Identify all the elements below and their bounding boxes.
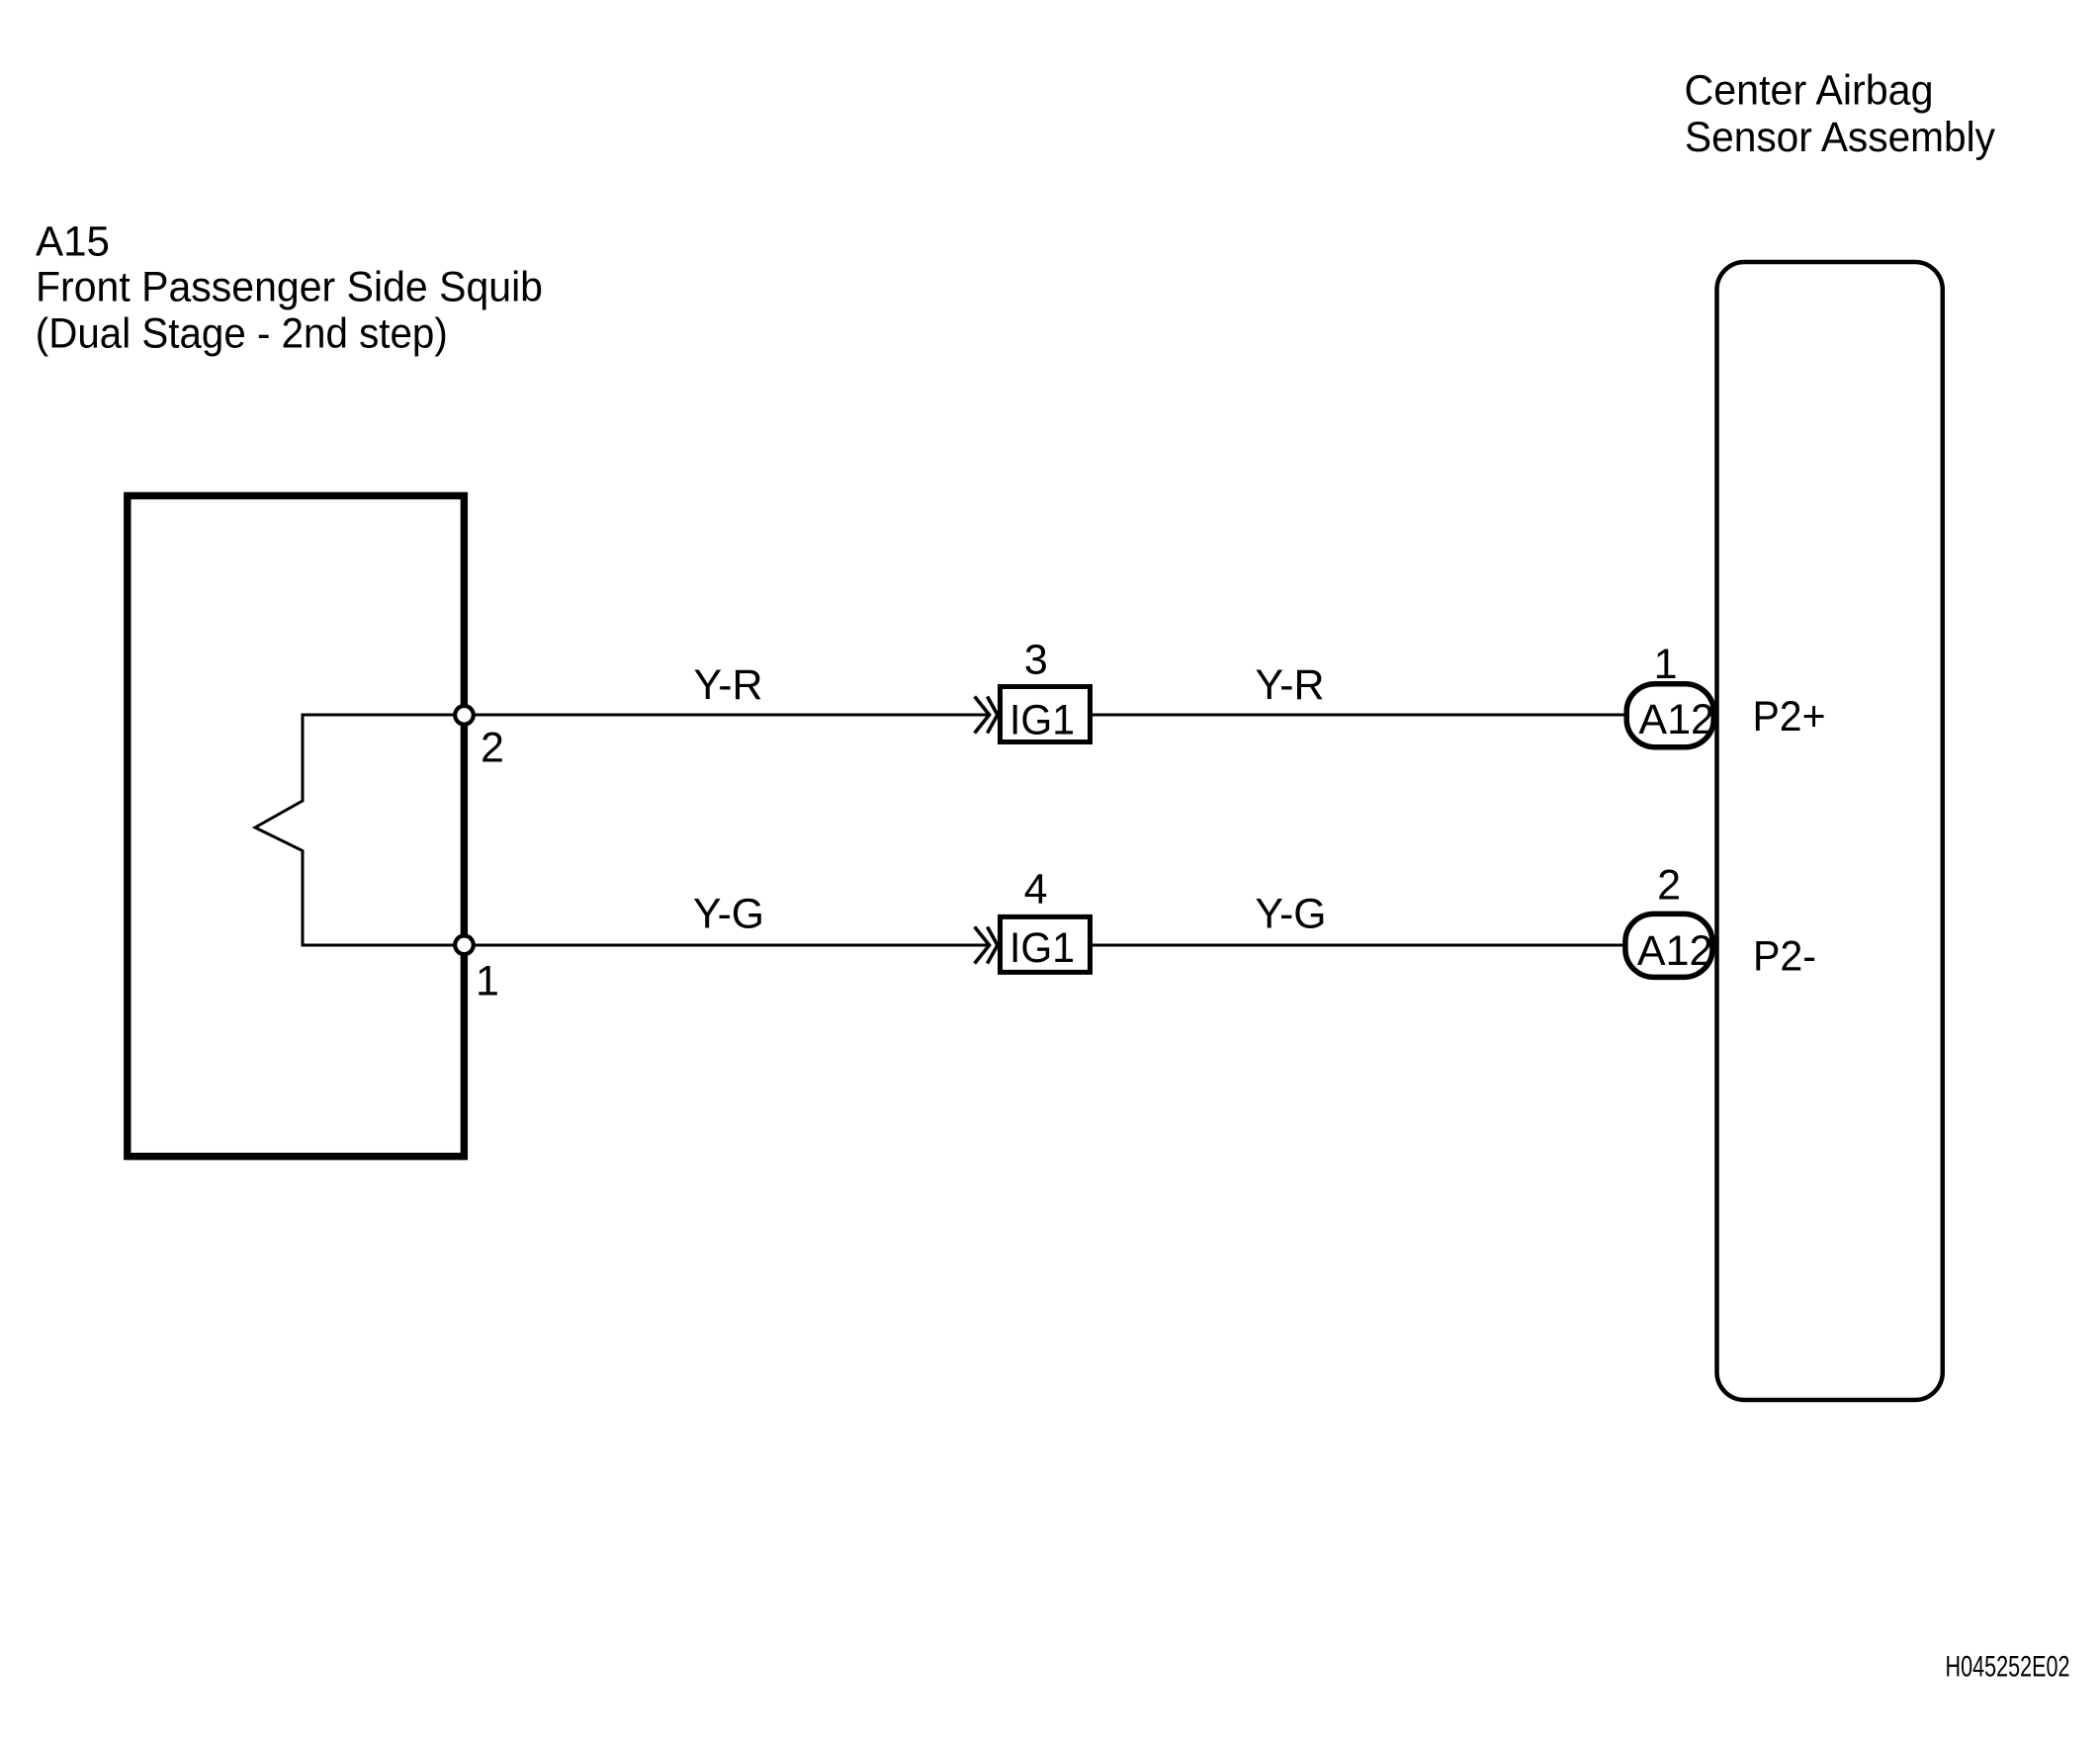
svg-text:IG1: IG1 (1009, 924, 1075, 972)
svg-text:Y-G: Y-G (1256, 891, 1327, 938)
wire Y-R from A15 pin 2 to junction IG1 (3) (473, 714, 989, 717)
svg-text:1: 1 (1654, 641, 1678, 688)
terminal pin 1 of A15 (455, 936, 474, 955)
inline connector chevrons (top wire) (975, 697, 990, 734)
svg-text:4: 4 (1024, 866, 1048, 914)
wire Y-R from junction IG1 (3) to A12 pin 1 (1093, 714, 1624, 717)
svg-text:2: 2 (1657, 862, 1681, 910)
connector oval A12 pin 2 (1625, 914, 1712, 977)
inline connector chevrons (bottom wire) (975, 927, 990, 964)
svg-text:Front Passenger Side Squib: Front Passenger Side Squib (36, 264, 543, 311)
svg-text:IG1: IG1 (1009, 697, 1075, 744)
Center Airbag Sensor Assembly body (rounded rectangle) (1717, 262, 1943, 1400)
wire Y-G from A15 pin 1 to junction IG1 (4) (473, 944, 989, 947)
svg-text:Y-G: Y-G (693, 891, 764, 938)
wire Y-G from junction IG1 (4) to A12 pin 2 (1093, 944, 1623, 947)
junction block IG1 (3) (1001, 687, 1091, 742)
svg-text:(Dual Stage - 2nd step): (Dual Stage - 2nd step) (36, 310, 448, 358)
connector A15 body (squib connector rectangle) (128, 495, 465, 1156)
svg-text:Y-R: Y-R (694, 661, 763, 709)
svg-text:Center Airbag: Center Airbag (1685, 67, 1934, 115)
svg-text:A12: A12 (1638, 696, 1714, 743)
junction block IG1 (4) (1001, 916, 1091, 972)
svg-text:H045252E02: H045252E02 (1946, 1651, 2070, 1684)
connector oval A12 pin 1 (1626, 684, 1713, 747)
svg-text:A15: A15 (36, 218, 110, 266)
svg-text:3: 3 (1024, 637, 1048, 684)
svg-text:A12: A12 (1637, 927, 1713, 975)
svg-text:Sensor Assembly: Sensor Assembly (1685, 114, 1995, 161)
svg-text:P2-: P2- (1753, 933, 1816, 981)
terminal pin 2 of A15 (455, 706, 474, 725)
svg-text:2: 2 (481, 725, 504, 772)
svg-text:Y-R: Y-R (1256, 661, 1325, 709)
squib element (zigzag) inside A15 (255, 715, 465, 945)
svg-text:P2+: P2+ (1753, 693, 1826, 740)
svg-text:1: 1 (476, 958, 499, 1005)
connector label A15 Front Passenger Side Squib (Dual Stage - 2nd step) (36, 218, 543, 358)
ECU label Center Airbag Sensor Assembly (1685, 67, 1996, 162)
